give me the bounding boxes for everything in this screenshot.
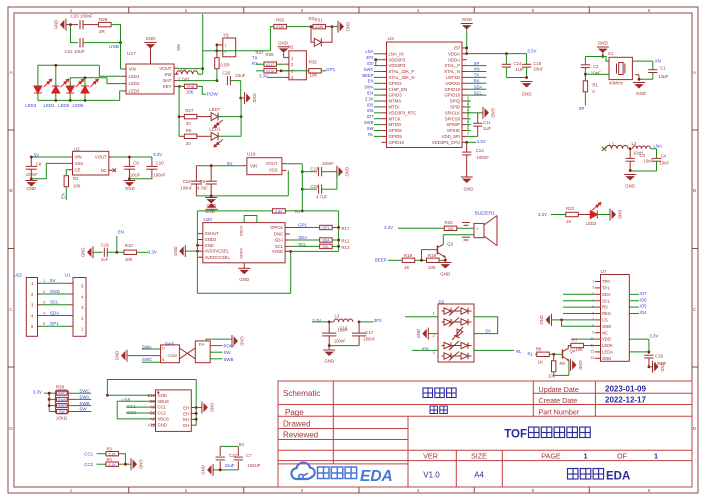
svg-text:VDD3P3: VDD3P3 — [389, 57, 406, 62]
node 3P3 — [358, 321, 361, 324]
diode pair — [444, 308, 451, 314]
svg-text:SWB: SWB — [79, 401, 89, 406]
svg-text:VBUS: VBUS — [158, 417, 170, 422]
svg-text:XN: XN — [474, 67, 480, 72]
svg-text:R36: R36 — [266, 52, 275, 57]
svg-text:B: B — [693, 188, 696, 194]
svg-text:20: 20 — [186, 121, 191, 126]
svg-text:C7: C7 — [246, 453, 252, 458]
svg-text:SDA: SDA — [50, 310, 59, 315]
svg-text:R12: R12 — [341, 239, 350, 244]
svg-text:GND: GND — [462, 17, 473, 22]
svg-text:L2: L2 — [632, 141, 637, 146]
svg-text:3.3V: 3.3V — [259, 74, 268, 79]
wire — [585, 73, 609, 75]
svg-text:DNC: DNC — [274, 232, 283, 237]
svg-text:3.3V: 3.3V — [33, 389, 42, 394]
svg-text:IO4: IO4 — [640, 310, 648, 315]
svg-text:VBUS: VBUS — [158, 399, 170, 404]
pin wires right / node 5V — [474, 317, 498, 334]
svg-text:10pF: 10pF — [659, 74, 669, 79]
svg-text:LED1: LED1 — [129, 74, 141, 79]
svg-text:SDA: SDA — [298, 235, 307, 240]
svg-text:GP1: GP1 — [322, 226, 329, 230]
wire — [83, 24, 99, 26]
svg-text:A4: A4 — [474, 471, 484, 480]
svg-text:100nF: 100nF — [322, 161, 334, 166]
svg-text:POW: POW — [207, 92, 219, 97]
svg-text:5: 5 — [532, 488, 535, 494]
resistor network R38 — [55, 390, 68, 414]
ground — [65, 19, 67, 31]
svg-text:CC1: CC1 — [84, 451, 93, 456]
capacitor C20 — [79, 20, 81, 29]
capacitor C22 — [195, 166, 197, 182]
capacitor C15 — [522, 63, 531, 65]
svg-text:GPIO2: GPIO2 — [389, 81, 403, 86]
resistor R31 — [313, 24, 326, 28]
svg-text:VER: VER — [423, 451, 438, 460]
resistor R5 — [179, 135, 184, 137]
svg-text:4.7uF: 4.7uF — [197, 185, 208, 190]
svg-text:L3: L3 — [335, 314, 340, 319]
svg-text:R1: R1 — [592, 82, 598, 87]
capacitor C11 / ground (SPICLK) — [467, 112, 478, 114]
svg-text:0.5R: 0.5R — [220, 63, 229, 68]
svg-text:2R: 2R — [99, 29, 106, 34]
svg-text:1UF: 1UF — [483, 126, 492, 131]
node LNA — [651, 148, 657, 150]
svg-text:VDD: VDD — [602, 337, 611, 342]
svg-text:R4: R4 — [107, 457, 113, 462]
svg-text:10nF: 10nF — [533, 67, 543, 72]
wire — [197, 210, 272, 212]
svg-text:IO17: IO17 — [266, 63, 274, 67]
svg-text:2: 2 — [185, 8, 188, 14]
svg-text:RX: RX — [252, 61, 258, 66]
junction — [54, 64, 57, 67]
svg-text:GND: GND — [209, 403, 214, 413]
svg-text:Page: Page — [285, 408, 304, 417]
svg-text:R10: R10 — [125, 243, 133, 248]
wire / ground — [597, 214, 610, 216]
resistor 0.5R — [216, 51, 218, 58]
resistor R32 / node GP1 — [281, 70, 309, 72]
wire — [312, 321, 334, 323]
svg-text:GND: GND — [50, 289, 60, 294]
svg-text:C1: C1 — [660, 66, 666, 71]
svg-text:CC1: CC1 — [158, 405, 167, 410]
svg-text:IO9: IO9 — [448, 227, 454, 231]
resistor R1 — [584, 74, 586, 81]
capacitor C9 — [128, 157, 130, 166]
svg-text:SWC: SWC — [364, 67, 374, 72]
svg-text:R37: R37 — [256, 50, 265, 55]
svg-text:3.3V: 3.3V — [649, 333, 658, 338]
svg-text:1uF: 1uF — [101, 257, 109, 262]
capacitor C23 — [302, 171, 317, 173]
svg-text:C17: C17 — [365, 330, 373, 335]
svg-text:CS: CS — [602, 318, 608, 323]
svg-text:EN: EN — [118, 230, 124, 235]
svg-text:R17: R17 — [341, 226, 350, 231]
capacitor C14 — [505, 54, 507, 65]
svg-text:3: 3 — [433, 351, 435, 355]
connector U22 — [26, 278, 37, 337]
svg-text:GND: GND — [26, 186, 36, 191]
ground — [205, 197, 217, 199]
wire — [551, 214, 566, 216]
svg-text:GND2: GND2 — [205, 237, 217, 242]
resistor R2 — [66, 170, 69, 175]
svg-text:2: 2 — [433, 334, 435, 338]
svg-text:SW: SW — [79, 407, 87, 412]
svg-text:SPICS0: SPICS0 — [445, 116, 461, 121]
wire — [178, 86, 180, 136]
svg-text:R2: R2 — [73, 176, 79, 181]
svg-text:3: 3 — [301, 488, 304, 494]
svg-text:IO6: IO6 — [367, 108, 374, 113]
wire — [398, 227, 444, 229]
wires left — [127, 355, 161, 357]
svg-text:3.3V: 3.3V — [148, 249, 157, 254]
svg-text:C2: C2 — [593, 64, 599, 69]
ground — [126, 350, 128, 362]
node EN — [107, 251, 124, 253]
svg-text:Drawed: Drawed — [283, 419, 311, 428]
svg-text:10K: 10K — [575, 347, 583, 352]
svg-text:GND: GND — [201, 465, 206, 475]
wire — [44, 392, 57, 394]
svg-text:MTCK: MTCK — [389, 116, 401, 121]
svg-text:IO5: IO5 — [367, 102, 374, 107]
svg-text:PHB: PHB — [187, 85, 195, 89]
svg-text:IO5: IO5 — [640, 304, 648, 309]
svg-text:1: 1 — [70, 488, 73, 494]
wire VDD 3.3V — [571, 338, 595, 340]
svg-text:C19: C19 — [101, 243, 109, 248]
wires / nodes — [67, 392, 91, 394]
svg-text:BEEP: BEEP — [362, 73, 373, 78]
ground — [570, 359, 572, 371]
node 3P3 junction — [374, 58, 377, 61]
capacitor C4 — [656, 149, 658, 159]
svg-text:U22: U22 — [14, 272, 23, 277]
svg-text:VOUT: VOUT — [266, 161, 278, 166]
wire LEDA — [629, 351, 649, 353]
svg-text:100UF: 100UF — [247, 463, 260, 468]
svg-text:SPICLK: SPICLK — [445, 110, 460, 115]
capacitor C10 — [151, 157, 153, 166]
svg-text:GPIO19: GPIO19 — [444, 87, 460, 92]
svg-text:XP: XP — [474, 61, 480, 66]
svg-text:EN: EN — [368, 79, 374, 84]
svg-text:VSS: VSS — [75, 161, 84, 166]
svg-text:GND: GND — [344, 167, 349, 177]
svg-text:LED2: LED2 — [129, 81, 141, 86]
svg-text:XTAL_32K_P: XTAL_32K_P — [389, 69, 415, 74]
wire 3.3V — [267, 76, 284, 78]
svg-text:MTDO: MTDO — [389, 122, 402, 127]
wire / ground — [206, 339, 232, 341]
svg-text:LED5: LED5 — [58, 103, 70, 108]
svg-text:R3: R3 — [107, 447, 113, 452]
svg-text:VOUT: VOUT — [95, 155, 107, 160]
svg-text:10UF: 10UF — [130, 173, 141, 178]
wire — [38, 99, 120, 101]
capacitor C8 — [30, 157, 32, 166]
svg-text:1: 1 — [654, 451, 658, 460]
no-connect — [113, 169, 117, 173]
wire — [457, 227, 474, 229]
svg-text:R20: R20 — [445, 220, 454, 225]
ground — [648, 365, 651, 368]
wire — [120, 43, 122, 69]
svg-text:U19: U19 — [247, 151, 256, 156]
svg-text:2022-12-17: 2022-12-17 — [605, 396, 646, 405]
ground — [196, 407, 202, 409]
capacitor C5 — [210, 166, 212, 182]
crystal X1 40MHz — [609, 57, 632, 79]
svg-text:10K: 10K — [125, 257, 133, 262]
node USB — [119, 41, 122, 44]
wire BAT — [178, 80, 217, 82]
svg-text:Q4: Q4 — [570, 348, 576, 353]
ground — [25, 180, 37, 182]
svg-text:1UF: 1UF — [516, 67, 525, 72]
svg-text:20: 20 — [186, 141, 191, 146]
svg-text:LED3: LED3 — [129, 89, 141, 94]
svg-text:3.3V: 3.3V — [477, 139, 486, 144]
svg-text:IO7: IO7 — [367, 114, 374, 119]
wire VDDA to 3.3V — [467, 53, 527, 55]
capacitor C3 — [629, 149, 631, 159]
ground — [130, 458, 132, 470]
svg-text:R7: R7 — [572, 337, 578, 342]
svg-text:EN: EN — [61, 193, 66, 199]
wire ground loop — [196, 211, 198, 293]
wire XN — [632, 60, 652, 62]
svg-text:TP1: TP1 — [602, 286, 610, 291]
wire — [585, 57, 609, 62]
svg-text:10K: 10K — [73, 183, 81, 188]
diode pair — [444, 319, 451, 325]
nodes IO7..IO4 — [629, 293, 639, 295]
nodes XP XN TX RX SDA SCL — [467, 65, 487, 67]
svg-text:1K: 1K — [404, 265, 409, 270]
svg-text:GND: GND — [578, 360, 583, 370]
svg-text:Q2: Q2 — [447, 242, 453, 247]
svg-text:Reviewed: Reviewed — [283, 430, 318, 439]
svg-text:R27: R27 — [185, 108, 194, 113]
ground — [212, 464, 214, 476]
svg-text:GND: GND — [115, 351, 120, 361]
svg-text:TX: TX — [252, 55, 258, 60]
svg-text:D3: D3 — [309, 16, 315, 21]
svg-text:VIN: VIN — [75, 155, 82, 160]
svg-text:L4: L4 — [181, 67, 186, 72]
svg-text:3.3V: 3.3V — [538, 212, 547, 217]
svg-text:COM: COM — [168, 353, 177, 358]
wire — [240, 98, 242, 136]
svg-text:RS: RS — [602, 305, 608, 310]
wire — [38, 64, 100, 66]
svg-text:MTDI: MTDI — [389, 105, 400, 110]
svg-text:1K: 1K — [538, 359, 543, 364]
svg-text:5V: 5V — [239, 442, 244, 447]
svg-text:SDA: SDA — [274, 238, 283, 243]
svg-text:GPIO3: GPIO3 — [389, 93, 403, 98]
LED7 — [197, 116, 211, 118]
middle diode — [454, 329, 463, 338]
no-connect X — [602, 147, 606, 151]
svg-text:5: 5 — [532, 8, 535, 14]
svg-text:1: 1 — [584, 451, 588, 460]
svg-text:SW: SW — [176, 44, 181, 51]
EH pins — [191, 407, 196, 409]
svg-text:C8: C8 — [36, 162, 42, 167]
svg-text:A12: A12 — [148, 422, 156, 427]
IC U20 — [203, 223, 285, 263]
svg-text:CC2: CC2 — [84, 462, 93, 467]
svg-text:XTAL_32K_N: XTAL_32K_N — [389, 75, 415, 80]
svg-text:D: D — [693, 426, 697, 432]
svg-text:LED6: LED6 — [73, 103, 85, 108]
ground — [123, 180, 135, 182]
svg-text:SIZE: SIZE — [471, 451, 487, 460]
green pin stubs SPI — [467, 100, 471, 102]
svg-text:GND: GND — [240, 336, 245, 346]
wire — [213, 469, 238, 471]
svg-text:SW9: SW9 — [165, 342, 175, 347]
svg-text:C: C — [9, 307, 13, 313]
wire — [99, 65, 121, 76]
svg-text:XSHUT: XSHUT — [205, 231, 220, 236]
svg-text:EH: EH — [183, 411, 189, 416]
connector H2 — [289, 51, 307, 80]
wire — [111, 25, 121, 43]
svg-text:22uF: 22uF — [235, 73, 245, 78]
svg-text:VSS: VSS — [269, 168, 278, 173]
wire — [66, 24, 78, 26]
LED4 — [55, 65, 57, 86]
svg-text:3.3V: 3.3V — [153, 152, 162, 157]
svg-text:GP1: GP1 — [50, 321, 59, 326]
svg-text:+: + — [476, 227, 479, 232]
svg-text:100nF: 100nF — [477, 155, 490, 160]
svg-text:BEEP: BEEP — [375, 257, 387, 262]
wire — [70, 77, 107, 79]
svg-text:CHIP_EN: CHIP_EN — [389, 87, 408, 92]
svg-text:VIN: VIN — [129, 67, 136, 72]
capacitor C27 — [219, 446, 221, 456]
svg-text:SPIQ: SPIQ — [450, 99, 461, 104]
svg-text:2: 2 — [185, 488, 188, 494]
svg-text:SWC: SWC — [58, 392, 66, 396]
svg-text:C16: C16 — [340, 326, 348, 331]
capacitor C17 — [358, 322, 360, 333]
svg-text:SPID: SPID — [450, 105, 460, 110]
svg-text:R22: R22 — [566, 206, 575, 211]
svg-text:LNA: LNA — [365, 49, 373, 54]
svg-text:RX: RX — [474, 79, 480, 84]
svg-text:R50: R50 — [276, 18, 285, 23]
capacitor C2 — [584, 57, 586, 65]
svg-text:GND: GND — [139, 459, 144, 469]
svg-text:SCL: SCL — [322, 245, 329, 249]
svg-text:C5: C5 — [200, 179, 206, 184]
svg-text:TX: TX — [474, 73, 480, 78]
LED5 — [69, 78, 71, 86]
svg-text:RES: RES — [602, 311, 611, 316]
svg-text:AVDOVCSEL: AVDOVCSEL — [205, 255, 231, 260]
svg-text:GPIO9: GPIO9 — [389, 134, 403, 139]
svg-text:C4: C4 — [661, 154, 667, 159]
svg-text:IO7: IO7 — [640, 291, 648, 296]
svg-text:SDA: SDA — [322, 239, 330, 243]
svg-text:USB: USB — [109, 44, 119, 50]
svg-text:3.3V: 3.3V — [527, 49, 536, 54]
svg-text:RL: RL — [528, 352, 534, 357]
svg-text:LNA: LNA — [654, 144, 663, 149]
svg-text:GND: GND — [324, 359, 334, 364]
svg-text:BUZZER1: BUZZER1 — [475, 211, 496, 216]
svg-text:EP: EP — [454, 46, 460, 51]
svg-text:12: 12 — [590, 350, 594, 354]
svg-text:VIN: VIN — [250, 163, 257, 168]
resistor PHB 10K (KEY) — [178, 85, 181, 88]
svg-text:1: 1 — [225, 44, 227, 48]
svg-text:SPIHD: SPIHD — [447, 128, 460, 133]
svg-text:R29: R29 — [99, 17, 108, 22]
svg-text:R13: R13 — [341, 245, 350, 250]
capacitor C7 — [237, 446, 239, 456]
wire SW net — [202, 14, 204, 74]
svg-text:FLASH: FLASH — [466, 125, 470, 135]
capacitor C19 — [93, 251, 103, 253]
svg-text:5.1K: 5.1K — [108, 463, 116, 467]
resistor R18 — [415, 259, 427, 261]
svg-text:SWC: SWC — [142, 357, 152, 362]
svg-text:GPIO8: GPIO8 — [389, 128, 403, 133]
svg-text:C24: C24 — [310, 184, 318, 189]
svg-text:GND: GND — [125, 186, 135, 191]
ground CS — [551, 314, 553, 326]
svg-text:CE: CE — [75, 167, 81, 172]
svg-text:GND: GND — [522, 92, 533, 97]
svg-text:GP1: GP1 — [326, 67, 336, 72]
svg-text:R19: R19 — [404, 253, 413, 258]
svg-text:BAT: BAT — [163, 78, 172, 83]
svg-text:C10: C10 — [156, 160, 165, 165]
svg-text:40MHz: 40MHz — [609, 81, 623, 86]
svg-text:TP0: TP0 — [602, 279, 610, 284]
svg-text:C23: C23 — [310, 166, 318, 171]
svg-text:SWA: SWA — [79, 395, 89, 400]
svg-text:SDA: SDA — [474, 84, 483, 89]
svg-text:3.3V: 3.3V — [312, 318, 321, 323]
svg-text:LED3: LED3 — [25, 103, 37, 108]
junction — [69, 23, 72, 26]
svg-text:VDD3P3_RTC: VDD3P3_RTC — [389, 110, 417, 115]
svg-text:VDD3P3: VDD3P3 — [389, 63, 406, 68]
svg-text:Create Date: Create Date — [539, 396, 578, 405]
svg-text:H1: H1 — [224, 33, 230, 38]
wire VOUT — [286, 163, 302, 165]
svg-text:RL: RL — [368, 132, 374, 137]
svg-text:LEDK: LEDK — [602, 343, 613, 348]
svg-text:LEDA: LEDA — [602, 350, 613, 355]
